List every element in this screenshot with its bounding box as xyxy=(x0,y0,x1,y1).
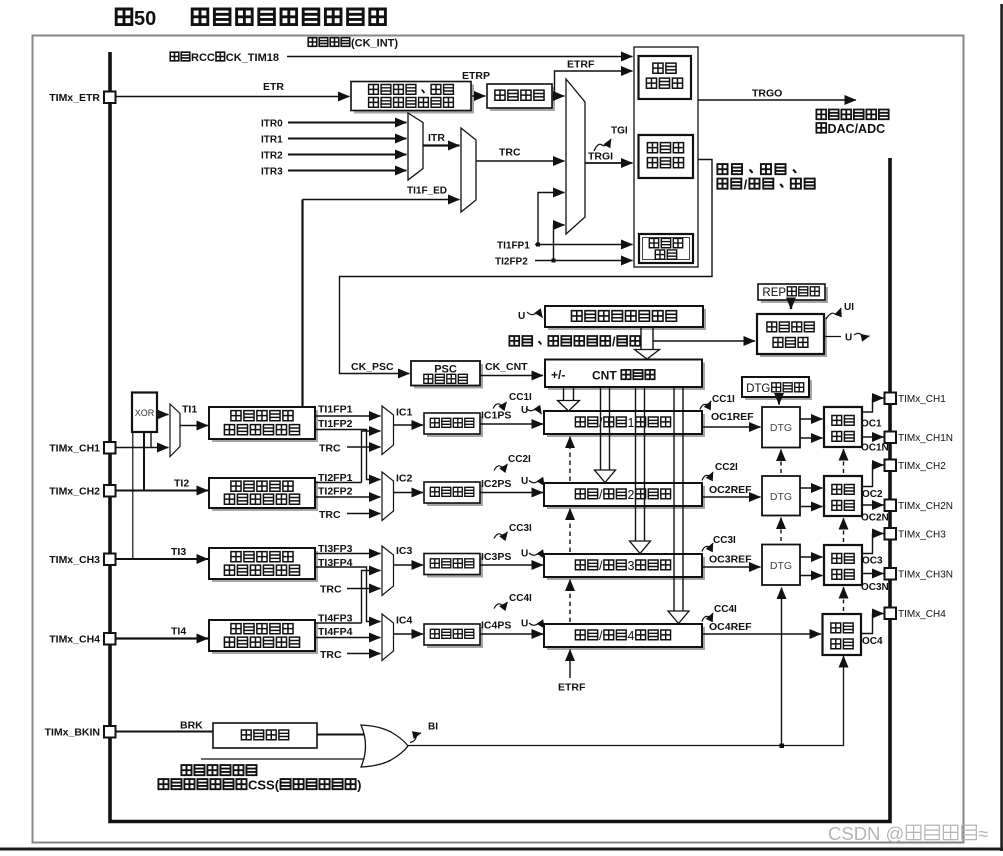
wire TI2FP2 riser to big mux xyxy=(554,225,565,261)
wire TI1FP2 down to IC2 mux xyxy=(315,430,381,480)
svg-text:U: U xyxy=(521,619,528,630)
wire DTG2 out lower xyxy=(800,506,823,508)
svg-text:TIMx_CH4: TIMx_CH4 xyxy=(898,609,946,620)
wire TRGO xyxy=(698,99,856,101)
wire OC4REF xyxy=(702,633,821,635)
box DTG register xyxy=(742,377,809,397)
svg-text:CC1I: CC1I xyxy=(509,392,532,403)
label CK_TIM18 source xyxy=(170,52,279,64)
mux ITR selector xyxy=(408,113,423,180)
event squiggle CC1I right xyxy=(700,401,711,410)
label up/down count xyxy=(717,177,814,192)
wire TRC stub row4 xyxy=(347,653,381,655)
pin TIMx_CH3 (right) xyxy=(885,528,947,541)
svg-text:CK_TIM18: CK_TIM18 xyxy=(226,52,279,64)
svg-text:TI2FP2: TI2FP2 xyxy=(318,486,353,498)
svg-text:IC3: IC3 xyxy=(396,545,413,557)
wire TI3FP4 down to IC4 mux xyxy=(315,567,381,622)
wire TI2FP1 (to riser) xyxy=(315,482,362,484)
wire TI2FP1 up to IC1 mux xyxy=(362,431,381,483)
svg-text:TIMx_CH2: TIMx_CH2 xyxy=(898,461,946,472)
svg-text:DTG: DTG xyxy=(746,383,770,395)
wire TI1F_ED riser xyxy=(301,200,303,407)
junction TI1FP1 xyxy=(536,243,540,247)
svg-text:50: 50 xyxy=(134,8,156,30)
svg-text:ITR: ITR xyxy=(428,132,445,144)
label from clock controller CSS xyxy=(158,778,361,793)
box output control 3 xyxy=(824,545,862,585)
svg-text:TI2FP2: TI2FP2 xyxy=(495,257,528,268)
box encoder interface xyxy=(639,234,693,263)
box PSC prescaler xyxy=(411,361,480,386)
wire U to repetition counter xyxy=(653,340,755,342)
bus CNT to capture2 (hollow arrow) xyxy=(595,387,616,483)
box trigger controller xyxy=(639,56,692,99)
box ETR polarity/edge/prescaler shadow xyxy=(354,85,474,114)
box prescaler 4 xyxy=(424,624,480,645)
svg-text:CNT: CNT xyxy=(592,369,617,383)
wire U out of repetition counter xyxy=(824,336,841,338)
svg-text:TI1FP1: TI1FP1 xyxy=(497,241,530,252)
wire TRC stub row2 xyxy=(347,513,381,515)
wire TI4FP3 up to IC3 mux xyxy=(362,571,381,624)
event squiggle U row2 xyxy=(529,481,545,487)
svg-text:CC3I: CC3I xyxy=(509,523,532,534)
wire TI4FP3 (to riser) xyxy=(315,622,362,624)
svg-text:UI: UI xyxy=(844,302,854,313)
svg-text:OC1REF: OC1REF xyxy=(711,411,754,423)
svg-text:TRGI: TRGI xyxy=(588,151,613,163)
svg-text:TI1FP1: TI1FP1 xyxy=(318,404,353,416)
box capture/compare 1 shadow xyxy=(547,414,705,437)
svg-text:CC4I: CC4I xyxy=(509,593,532,604)
event squiggle CC3I right xyxy=(702,543,713,552)
label clock failure event xyxy=(181,765,256,775)
svg-text:OC3REF: OC3REF xyxy=(709,554,752,566)
box DTG2 xyxy=(762,476,800,516)
box slave mode controller xyxy=(639,135,694,178)
title text xyxy=(192,9,385,25)
svg-text:U: U xyxy=(521,476,528,487)
svg-text:DTG: DTG xyxy=(770,422,792,434)
box input filter 3 shadow xyxy=(212,551,318,582)
box input filter 4 xyxy=(209,620,315,651)
svg-text:U: U xyxy=(521,405,528,416)
svg-text:TIMx_ETR: TIMx_ETR xyxy=(49,92,100,104)
box capture/compare 3 shadow xyxy=(547,557,705,580)
label to DAC/ADC xyxy=(816,122,885,136)
wire ETR box to input filter xyxy=(471,95,486,97)
label stop clear up/down xyxy=(509,335,640,349)
wire IC2PS xyxy=(480,492,543,494)
wire IC3 xyxy=(394,564,424,566)
box prescaler 2 shadow xyxy=(427,485,483,506)
wire DTG2 out upper xyxy=(800,487,823,489)
mux IC2 xyxy=(382,472,394,521)
wire BRK xyxy=(116,731,214,733)
box ETR polarity/edge/prescaler xyxy=(351,82,471,111)
dashed BI arrow into output control 1 xyxy=(843,449,845,473)
wire OC3REF xyxy=(702,566,761,568)
event squiggle UI xyxy=(826,308,841,319)
wire DTG3 out upper xyxy=(800,556,823,558)
dashed BI arrow into output control 3 xyxy=(843,587,845,611)
svg-text:CK_PSC: CK_PSC xyxy=(351,361,394,373)
svg-text:TIMx_CH3: TIMx_CH3 xyxy=(49,554,100,566)
wire OC2 to pin xyxy=(862,465,884,487)
svg-text:ITR3: ITR3 xyxy=(261,167,283,178)
wire IC2 xyxy=(394,492,424,494)
svg-text:IC3PS: IC3PS xyxy=(481,551,511,563)
box CNT counter xyxy=(545,360,702,388)
wire OC1REF xyxy=(702,426,761,428)
box CNT counter shadow xyxy=(548,363,705,391)
svg-text:DTG: DTG xyxy=(770,491,792,503)
svg-text:OC3: OC3 xyxy=(862,556,883,567)
svg-text:TRC: TRC xyxy=(320,649,342,661)
svg-text:ETRF: ETRF xyxy=(567,59,595,71)
pin TIMx_CH1N (right) xyxy=(885,432,954,445)
svg-text:CC2I: CC2I xyxy=(715,462,738,473)
svg-text:U: U xyxy=(521,549,528,560)
box input filter 2 shadow xyxy=(212,481,318,511)
wire TI4FP4 xyxy=(315,637,381,639)
event squiggle CC4I right xyxy=(702,613,713,622)
svg-text:1: 1 xyxy=(628,416,635,430)
wire TRGI xyxy=(585,162,633,164)
box input filter 3 xyxy=(209,548,315,579)
svg-text:BRK: BRK xyxy=(180,720,203,732)
mux IC3 xyxy=(382,546,394,596)
box capture/compare 4 shadow xyxy=(547,627,705,650)
wire ETR xyxy=(116,96,350,98)
wire IC4PS xyxy=(480,633,543,635)
svg-text:U: U xyxy=(518,311,525,322)
wire BI riser to DTG3 xyxy=(781,588,783,746)
svg-text:/: / xyxy=(599,629,603,643)
svg-text:CC1I: CC1I xyxy=(712,394,735,405)
box prescaler 1 shadow xyxy=(427,416,483,437)
dashed BI arrow into DTG1 xyxy=(780,450,782,474)
pin TIMx_CH3 (left) xyxy=(49,554,115,567)
wire ETRF into capture4 xyxy=(569,650,571,679)
box output control 4 xyxy=(823,614,862,655)
wire TI1 mux out xyxy=(180,425,208,427)
svg-text:TI2FP1: TI2FP1 xyxy=(318,472,353,484)
pin TIMx_ETR xyxy=(49,92,115,105)
svg-text:TI3: TI3 xyxy=(171,546,186,558)
label CK_INT xyxy=(308,38,398,50)
svg-text:+/-: +/- xyxy=(551,368,565,382)
box capture/compare register 1 xyxy=(544,411,702,434)
event squiggle CC3I left xyxy=(494,532,508,539)
svg-text:/: / xyxy=(599,559,603,573)
box polarity selection xyxy=(213,723,317,748)
svg-text:ETRF: ETRF xyxy=(558,682,586,694)
pin TIMx_CH2 (left) xyxy=(49,485,115,498)
svg-text:IC1PS: IC1PS xyxy=(481,410,511,422)
svg-text:TIMx_CH3: TIMx_CH3 xyxy=(898,530,946,541)
svg-text:ITR0: ITR0 xyxy=(261,119,283,130)
box capture/compare register 4 xyxy=(544,624,702,647)
box input filter 2 xyxy=(209,478,315,508)
bus CNT to capture4 (hollow arrow) xyxy=(668,387,689,624)
box repetition counter shadow xyxy=(760,317,827,357)
svg-text:TIMx_CH1: TIMx_CH1 xyxy=(49,443,100,455)
mux IC1 xyxy=(382,406,394,455)
svg-text:CC2I: CC2I xyxy=(508,454,531,465)
screenshot right edge line xyxy=(1000,4,1003,851)
bus CNT to capture1 (hollow arrow) xyxy=(558,387,580,411)
box output control 1 xyxy=(824,407,862,447)
pin TIMx_CH1 (left) xyxy=(49,442,115,455)
junction BI/DTG riser xyxy=(780,744,785,749)
svg-text:TI4FP3: TI4FP3 xyxy=(318,613,353,625)
svg-text:OC4: OC4 xyxy=(862,636,883,647)
svg-text:TIMx_BKIN: TIMx_BKIN xyxy=(45,727,100,739)
wire XOR input stub from CH2 xyxy=(143,432,145,491)
wire polarity selection to OR gate xyxy=(317,734,367,736)
box DTG register shadow xyxy=(745,380,812,400)
svg-text:TIMx_CH2: TIMx_CH2 xyxy=(49,486,100,498)
box REP register xyxy=(758,284,825,300)
box controller outer xyxy=(634,47,698,267)
svg-text:IC1: IC1 xyxy=(396,407,413,419)
dashed capture transfer arrow into capture3 xyxy=(569,580,571,623)
svg-text:TIMx_CH4: TIMx_CH4 xyxy=(49,634,100,646)
event squiggle CC1I left xyxy=(493,402,507,409)
OR gate break xyxy=(361,725,408,767)
svg-text:TI3FP3: TI3FP3 xyxy=(318,543,353,555)
box DTG3 xyxy=(762,545,800,586)
wire TIMx_CH1 to TI1 mux xyxy=(116,447,169,449)
box input filter 1 shadow xyxy=(212,410,318,442)
svg-text:XOR: XOR xyxy=(135,408,155,418)
wire DTG register to DTG1 xyxy=(778,397,780,405)
label to other timers xyxy=(816,110,888,120)
box ETR input filter xyxy=(487,84,552,108)
wire OC3N to pin xyxy=(862,573,884,575)
event squiggle U reload xyxy=(527,312,543,318)
event squiggle U row3 xyxy=(529,553,545,559)
wire BI to output stages xyxy=(408,656,844,746)
wire OC4 to pin xyxy=(861,614,884,634)
event squiggle CC4I left xyxy=(494,602,508,609)
wire OC2N to pin xyxy=(862,504,884,506)
svg-text:DAC/ADC: DAC/ADC xyxy=(828,122,886,136)
box ETR input filter shadow xyxy=(490,87,555,111)
svg-text:TIMx_CH2N: TIMx_CH2N xyxy=(898,501,953,512)
dashed capture transfer arrow into capture1 xyxy=(569,437,571,482)
svg-text:IC4: IC4 xyxy=(396,615,413,627)
svg-text:TRGO: TRGO xyxy=(752,88,782,100)
box input filter 1 xyxy=(209,407,315,439)
svg-text:/: / xyxy=(612,335,616,349)
wire DTG1 out lower xyxy=(800,437,823,439)
svg-text:ETR: ETR xyxy=(263,81,284,93)
svg-text:/: / xyxy=(599,488,603,502)
svg-text:IC2: IC2 xyxy=(396,473,413,485)
svg-text:TRC: TRC xyxy=(320,584,342,596)
wire REP to repetition counter xyxy=(790,300,792,309)
svg-text:TI4: TI4 xyxy=(171,626,186,638)
mux TRGI selector xyxy=(461,128,476,212)
wire TIMx_CH3 TI3 xyxy=(116,558,209,560)
wire TRC stub row3 xyxy=(347,588,381,590)
svg-text:RCC: RCC xyxy=(191,52,215,64)
wire ETRP into big mux xyxy=(555,95,565,97)
wire TI1F_ED xyxy=(303,199,460,201)
event squiggle BI xyxy=(410,733,421,743)
wire ITR3 xyxy=(288,170,407,172)
wire ITR1 xyxy=(288,138,407,140)
svg-text:≈: ≈ xyxy=(978,823,988,844)
svg-text:IC4PS: IC4PS xyxy=(481,620,511,632)
pin TIMx_CH2N (right) xyxy=(885,500,954,513)
svg-text:U: U xyxy=(845,333,852,344)
mux IC4 xyxy=(382,614,394,661)
box PSC prescaler shadow xyxy=(414,364,483,389)
wire TI3FP3 xyxy=(315,553,381,555)
svg-text:): ) xyxy=(357,778,361,793)
wire ITR0 xyxy=(288,122,407,124)
svg-text:TI4FP4: TI4FP4 xyxy=(318,626,353,638)
watermark xyxy=(828,823,988,844)
event squiggle CC2I right xyxy=(702,472,713,481)
wire TI2FP2 to encoder xyxy=(535,260,633,262)
label reset enable xyxy=(717,164,795,174)
event squiggle TGI xyxy=(594,139,611,151)
svg-text:TI1FP2: TI1FP2 xyxy=(318,418,353,430)
svg-text:REP: REP xyxy=(762,287,786,299)
svg-text:TI1: TI1 xyxy=(182,404,197,416)
wire IC3PS xyxy=(480,564,543,566)
svg-text:TIMx_CH3N: TIMx_CH3N xyxy=(898,570,953,581)
svg-text:TI2: TI2 xyxy=(174,478,189,490)
wire IC1PS xyxy=(480,423,543,425)
wire ITR xyxy=(423,144,460,146)
event squiggle U repetition xyxy=(854,333,870,336)
pin TIMx_CH1 (right) xyxy=(885,393,947,406)
wire OC1 to pin xyxy=(862,398,884,412)
svg-text:BI: BI xyxy=(428,722,438,733)
title figure number xyxy=(116,8,156,30)
svg-text:CSS(: CSS( xyxy=(248,778,280,793)
wire XOR out xyxy=(157,414,169,416)
box prescaler 3 shadow xyxy=(427,557,483,578)
pin TIMx_CH2 (right) xyxy=(885,460,947,473)
svg-text:CC3I: CC3I xyxy=(713,535,736,546)
event squiggle CC2I left xyxy=(494,464,508,471)
bus reload to CNT (hollow arrow) xyxy=(635,327,660,359)
svg-text:4: 4 xyxy=(628,629,635,643)
box auto-reload register xyxy=(545,306,703,327)
box prescaler 4 shadow xyxy=(427,627,483,648)
svg-text:/: / xyxy=(744,177,748,192)
wire DTG1 out upper xyxy=(800,418,823,420)
wire IC4 xyxy=(394,633,424,635)
wire OC3 to pin xyxy=(862,534,884,554)
mux TI1 selector xyxy=(170,404,180,457)
wire TIMx_CH2 TI2 xyxy=(116,490,209,492)
mux ETRF/TRC selector (big) xyxy=(566,79,585,234)
wire TI1FP1 to encoder xyxy=(535,244,633,246)
box capture/compare register 2 xyxy=(544,483,702,506)
wire TI1FP1 riser to big mux xyxy=(538,193,565,245)
box capture/compare register 3 xyxy=(544,554,702,577)
svg-text:DTG: DTG xyxy=(770,560,792,572)
box REP register shadow xyxy=(761,287,828,303)
svg-text:TIMx_CH1N: TIMx_CH1N xyxy=(898,433,953,444)
dashed capture transfer arrow into capture2 xyxy=(569,509,571,553)
svg-text:OC2REF: OC2REF xyxy=(709,484,752,496)
svg-text:CK_CNT: CK_CNT xyxy=(485,361,528,373)
box auto-reload register shadow xyxy=(548,309,706,330)
wire ITR2 xyxy=(288,154,407,156)
svg-text:CC4I: CC4I xyxy=(714,604,737,615)
pin TIMx_CH3N (right) xyxy=(885,568,954,581)
svg-text:OC2N: OC2N xyxy=(861,513,889,524)
svg-text:OC1N: OC1N xyxy=(861,443,889,454)
box repetition counter xyxy=(757,314,824,354)
dashed BI arrow into DTG2 xyxy=(780,518,782,542)
svg-text:CSDN @: CSDN @ xyxy=(828,823,904,844)
event squiggle U row4 xyxy=(529,623,545,629)
main block frame (left rail, bottom, right rail) xyxy=(110,52,890,822)
wire XOR input stub from CH1 xyxy=(150,432,152,448)
box DTG1 xyxy=(762,407,800,448)
svg-text:2: 2 xyxy=(628,488,635,502)
svg-text:OC3N: OC3N xyxy=(861,582,889,593)
svg-text:TRC: TRC xyxy=(319,443,341,455)
box input filter 4 shadow xyxy=(212,623,318,654)
svg-text:TI1F_ED: TI1F_ED xyxy=(407,186,447,197)
box output control 2 xyxy=(824,476,862,516)
svg-text:ITR1: ITR1 xyxy=(261,135,283,146)
wire OC2REF xyxy=(702,496,761,498)
junction TI2FP2 xyxy=(552,259,556,263)
wire CK_CNT xyxy=(480,375,543,377)
wire TRC to big mux xyxy=(476,160,565,162)
svg-text:TGI: TGI xyxy=(611,126,628,137)
wire ETRF to trigger controller xyxy=(552,71,633,96)
wire TIMx_CH4 TI4 xyxy=(116,637,209,639)
wire DTG3 out lower xyxy=(800,575,823,577)
dashed BI arrow into output control 2 xyxy=(843,518,845,542)
box prescaler 3 xyxy=(424,554,480,575)
wire IC1 xyxy=(394,424,424,426)
box prescaler 1 xyxy=(424,413,480,434)
wire TRC stub row1 xyxy=(347,446,381,448)
wire XOR input stub from CH3 xyxy=(132,432,134,559)
svg-text:ITR2: ITR2 xyxy=(261,151,283,162)
wire clock failure event xyxy=(201,758,367,760)
event squiggle U row1 xyxy=(526,409,542,415)
svg-text:TRC: TRC xyxy=(499,147,521,159)
screenshot bottom edge line xyxy=(0,848,1003,851)
box XOR xyxy=(132,393,157,433)
svg-text:OC1: OC1 xyxy=(861,419,882,430)
svg-text:OC4REF: OC4REF xyxy=(709,621,752,633)
bus CNT to capture3 (hollow arrow) xyxy=(630,387,651,554)
box prescaler 2 xyxy=(424,482,480,503)
svg-text:TIMx_CH1: TIMx_CH1 xyxy=(898,394,946,405)
wire TI2FP2 xyxy=(315,496,381,498)
wire slave mode controller to prescaler (CK_PSC feed) xyxy=(340,160,713,374)
svg-text:IC2PS: IC2PS xyxy=(481,478,511,490)
svg-text:TRC: TRC xyxy=(319,509,341,521)
wire TI1FP1 xyxy=(315,415,381,417)
